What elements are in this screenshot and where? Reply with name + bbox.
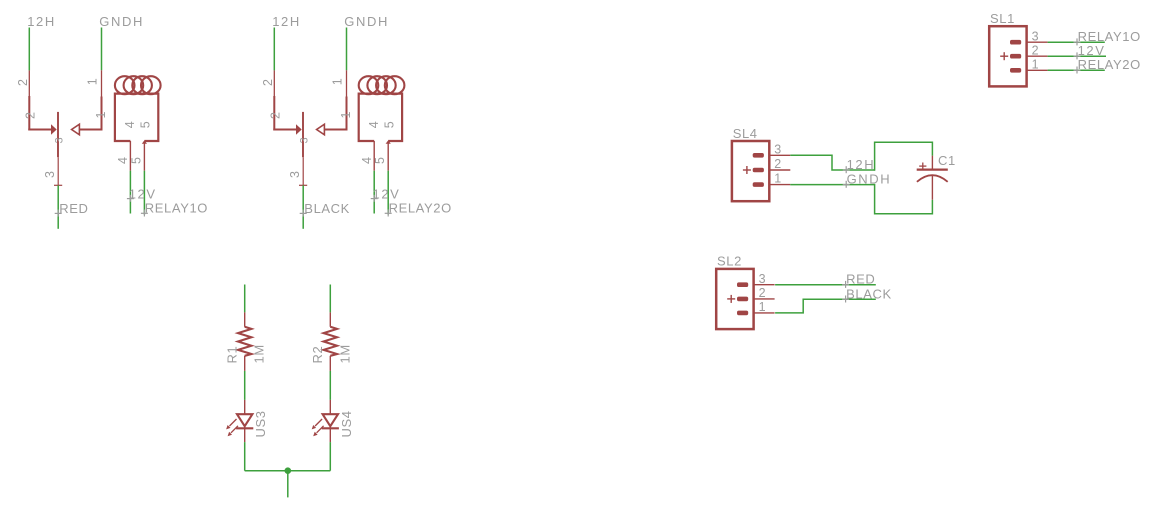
LED US4 emission arrows [312, 419, 324, 436]
net label RELAY1O [141, 201, 208, 217]
svg-text:SL1: SL1 [990, 11, 1015, 26]
connector SL2 pin 1 [754, 312, 775, 314]
wire net RELAY2O (coil K2) [387, 171, 389, 215]
connector SL4 pad 1 [753, 182, 764, 187]
svg-text:2: 2 [23, 111, 37, 119]
svg-text:2: 2 [774, 157, 782, 171]
svg-text:RED: RED [846, 272, 875, 287]
connector SL1 pin 3 [1027, 41, 1048, 43]
svg-text:R2: R2 [310, 346, 325, 364]
svg-text:GNDH: GNDH [344, 14, 389, 29]
svg-text:3: 3 [759, 272, 767, 286]
connector SL4 pin 1 [769, 184, 790, 186]
svg-text:SL4: SL4 [733, 126, 758, 141]
svg-text:12V: 12V [373, 186, 401, 201]
relay K2 coil loops [359, 76, 405, 94]
net label RELAY2O [385, 201, 452, 217]
connector SL4 pin 2 [769, 169, 790, 171]
svg-text:SL2: SL2 [717, 254, 742, 269]
LED US3 emission arrows [226, 419, 238, 436]
net label GNDH [843, 172, 892, 188]
svg-text:RELAY2O: RELAY2O [1078, 57, 1141, 72]
svg-text:2: 2 [261, 78, 275, 86]
net label BLACK [842, 286, 892, 302]
wire net RELAY1O (coil K1) [143, 171, 145, 215]
svg-text:5: 5 [129, 156, 143, 164]
net label RELAY2O [1074, 57, 1141, 73]
svg-text:2: 2 [1032, 43, 1040, 57]
wire net RELAY2O (SL1) [1048, 69, 1105, 71]
relay K2 coil pin 5 [386, 140, 391, 170]
svg-text:1: 1 [86, 78, 100, 86]
wire junction stub [287, 471, 289, 498]
wire R1 to US3 [244, 371, 246, 400]
wire net GNDH (relay K1) [101, 28, 103, 71]
svg-text:1M: 1M [337, 344, 352, 363]
svg-text:RED: RED [59, 201, 88, 216]
svg-text:US4: US4 [339, 410, 354, 437]
svg-text:4: 4 [360, 156, 374, 164]
junction dot [285, 467, 292, 474]
wire top (branch R2) [329, 285, 331, 313]
wire net 12V (coil K1) [129, 171, 131, 214]
relay K2 contact lever [302, 112, 304, 157]
svg-text:1: 1 [1032, 57, 1040, 71]
wire net 12V (coil K2) [373, 171, 375, 214]
wire US3 to junction [244, 442, 246, 471]
wire net GNDH (relay K2) [346, 28, 348, 71]
svg-text:3: 3 [1032, 29, 1040, 43]
relay K1 coil box [115, 94, 158, 141]
svg-text:1: 1 [774, 172, 782, 186]
LED US3 [236, 400, 253, 442]
wire net 12H (relay K1) [28, 28, 30, 71]
LED US4 [322, 400, 339, 442]
relay K2 contact pin 2 [273, 70, 301, 134]
net label 12V [371, 186, 401, 201]
svg-text:1: 1 [331, 78, 345, 86]
connector SL1 polarity mark [1000, 52, 1008, 60]
relay K2 coil pin 4 [373, 141, 375, 171]
svg-text:4: 4 [123, 121, 137, 129]
connector SL1 pad 2 [1010, 54, 1021, 59]
svg-text:12V: 12V [1078, 43, 1106, 58]
wire net 12H (SL4 to C1) [790, 155, 874, 170]
svg-text:BLACK: BLACK [846, 286, 892, 301]
resistor R2 1M [324, 312, 337, 371]
connector SL1 pad 1 [1010, 68, 1021, 73]
wire net BLACK (SL2) [775, 299, 876, 313]
net label RED [842, 272, 875, 288]
relay K2 coil box [359, 94, 402, 141]
connector SL4 body [732, 141, 769, 201]
connector SL2 pad 3 [737, 282, 748, 287]
svg-text:RELAY1O: RELAY1O [145, 201, 208, 216]
svg-text:5: 5 [373, 156, 387, 164]
svg-text:US3: US3 [253, 410, 268, 437]
wire net BLACK (relay K2) [302, 185, 304, 229]
svg-text:3: 3 [288, 170, 302, 178]
connector SL1 body [989, 26, 1026, 86]
svg-text:RELAY1O: RELAY1O [1078, 29, 1141, 44]
svg-text:GNDH: GNDH [847, 172, 892, 187]
svg-text:1: 1 [339, 111, 353, 119]
svg-text:3: 3 [298, 137, 310, 144]
connector SL4 pin 3 [769, 154, 790, 156]
net label 12V [1074, 43, 1106, 59]
relay K1 coil pin 4 [129, 141, 131, 171]
wire top (branch R1) [244, 285, 246, 313]
wire R2 to US4 [329, 371, 331, 400]
connector SL2 body [716, 269, 753, 329]
svg-text:2: 2 [268, 111, 282, 119]
svg-text:RELAY2O: RELAY2O [389, 201, 452, 216]
relay K1 contact pin 1 [72, 70, 103, 135]
svg-text:12V: 12V [129, 186, 157, 201]
svg-text:1: 1 [759, 300, 767, 314]
connector SL4 polarity mark [743, 166, 751, 174]
wire net 12H (relay K2) [273, 28, 275, 71]
svg-text:GNDH: GNDH [99, 14, 144, 29]
svg-text:3: 3 [53, 137, 65, 144]
relay K1 contact lever [57, 112, 59, 157]
connector SL2 pin 3 [754, 284, 775, 286]
net label BLACK [300, 201, 350, 217]
svg-text:3: 3 [774, 142, 782, 156]
relay K1 coil pin 5 [142, 140, 147, 170]
relay K1 contact pin 2 [28, 70, 56, 134]
resistor R1 1M [238, 312, 251, 371]
svg-text:3: 3 [43, 170, 57, 178]
wire net RED (SL2) [775, 284, 876, 286]
relay K1 contact pin 3 [54, 157, 62, 185]
net label RELAY1O [1074, 29, 1141, 45]
C1 polarity plus [919, 163, 926, 170]
capacitor C1 [917, 156, 948, 200]
relay K2 contact pin 3 [299, 157, 307, 185]
svg-text:12H: 12H [847, 157, 876, 172]
connector SL2 pad 2 [737, 297, 748, 302]
wire net RED (relay K1) [57, 185, 59, 229]
net label 12H [843, 157, 876, 173]
connector SL2 polarity mark [727, 295, 735, 303]
wire US4 to junction [329, 442, 331, 471]
net label 12V [127, 186, 157, 201]
svg-text:12H: 12H [27, 14, 56, 29]
svg-text:BLACK: BLACK [304, 201, 350, 216]
svg-text:12H: 12H [272, 14, 301, 29]
svg-text:5: 5 [139, 121, 153, 129]
svg-text:R1: R1 [224, 346, 239, 364]
wire net 12H up to C1 top [875, 142, 933, 171]
svg-text:1: 1 [94, 111, 108, 119]
wire net 12V (SL1) [1048, 55, 1106, 57]
svg-text:1M: 1M [252, 344, 267, 363]
connector SL2 pin 2 [754, 298, 775, 300]
svg-text:4: 4 [116, 156, 130, 164]
svg-text:2: 2 [759, 286, 767, 300]
svg-text:C1: C1 [938, 153, 956, 168]
wire net GNDH down to C1 bottom [875, 184, 933, 214]
connector SL4 pad 3 [753, 153, 764, 158]
relay K1 coil loops [115, 76, 161, 94]
net label RED [55, 201, 89, 217]
connector SL4 pad 2 [753, 168, 764, 173]
connector SL1 pin 1 [1027, 69, 1048, 71]
svg-text:4: 4 [367, 121, 381, 129]
connector SL2 pad 1 [737, 311, 748, 316]
svg-text:2: 2 [16, 78, 30, 86]
wire junction bus [245, 470, 331, 472]
relay K2 contact pin 1 [317, 70, 348, 135]
wire net GNDH (SL4 to C1) [790, 184, 874, 186]
connector SL1 pad 3 [1010, 40, 1021, 45]
wire net RELAY1O (SL1) [1048, 41, 1105, 43]
connector SL1 pin 2 [1027, 55, 1048, 57]
svg-text:5: 5 [383, 121, 397, 129]
